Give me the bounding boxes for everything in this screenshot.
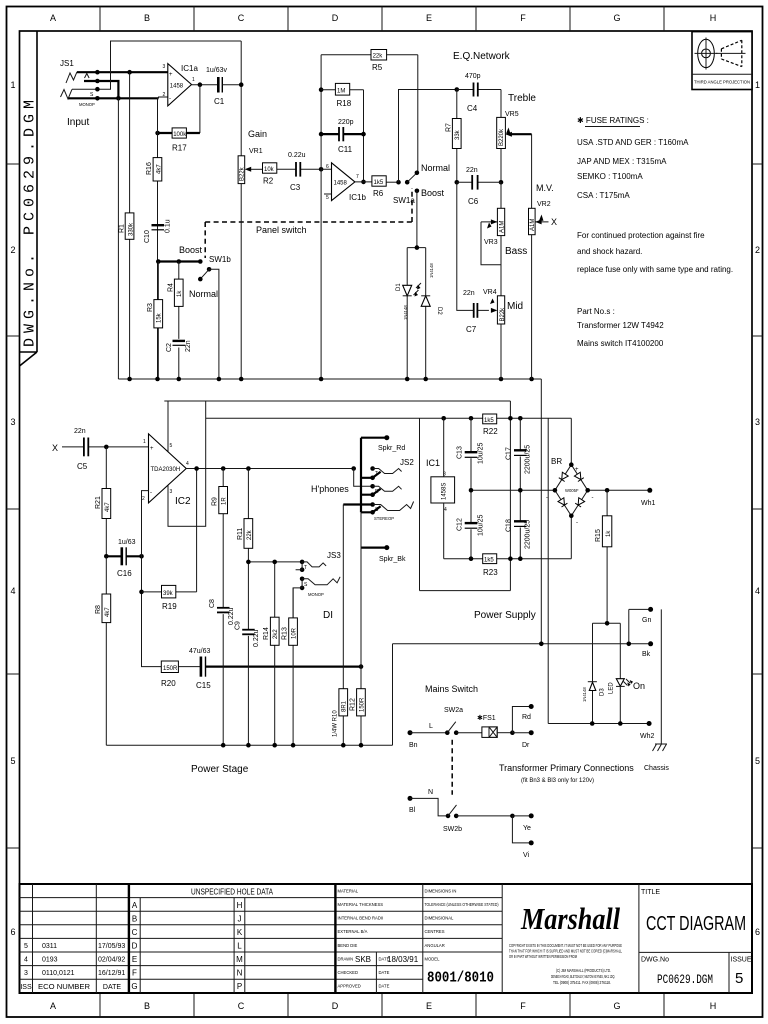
capacitor C6 22n	[455, 180, 460, 185]
pot VR3 bass	[500, 182, 502, 208]
wire jack ring	[84, 81, 118, 98]
svg-text:C12: C12	[457, 518, 464, 531]
svg-text:Rd: Rd	[522, 714, 531, 721]
svg-text:1N4148: 1N4148	[582, 687, 587, 702]
capacitor C4 470p	[455, 87, 460, 92]
wire SW1a node up to EQ	[399, 90, 457, 183]
svg-text:150R: 150R	[163, 666, 178, 672]
svg-text:1: 1	[143, 439, 146, 445]
capacitor C9 0.22u	[242, 629, 255, 631]
svg-text:L: L	[429, 723, 433, 730]
svg-text:22k: 22k	[247, 529, 253, 540]
grid ticks left	[7, 164, 20, 848]
IC2 package box	[168, 401, 206, 526]
grid letters top	[50, 13, 716, 23]
node R1 top	[127, 70, 132, 75]
wire IC1b pin5 to bus	[324, 193, 332, 195]
resistor R12 150R	[357, 689, 366, 716]
DWG number sidebar box	[20, 31, 39, 366]
svg-text:Spkr_Bk: Spkr_Bk	[379, 556, 406, 563]
svg-text:C5: C5	[77, 462, 88, 471]
svg-text:R21: R21	[95, 496, 102, 509]
IC2 output wire	[186, 468, 354, 470]
switch SW2b	[408, 796, 413, 801]
svg-text:4k7: 4k7	[105, 607, 111, 617]
diode D3 1N4148	[589, 682, 596, 690]
capacitor C8 0.22u	[217, 607, 230, 609]
pot VR5 treble	[497, 117, 506, 148]
capacitor C17 2200u/25	[519, 418, 521, 490]
svg-text:W005F: W005F	[565, 488, 579, 493]
svg-text:4: 4	[444, 507, 447, 513]
resistor R19 39k	[142, 469, 197, 592]
svg-text:Chassis: Chassis	[644, 765, 669, 772]
svg-text:1k: 1k	[606, 530, 612, 537]
resistor R2 10k	[263, 163, 277, 173]
svg-text:+: +	[150, 446, 154, 452]
svg-text:-: -	[576, 520, 578, 526]
resistor R18 1M	[319, 87, 324, 92]
svg-text:TDA2030H: TDA2030H	[151, 467, 181, 473]
svg-text:C9: C9	[235, 621, 242, 630]
grid numbers right	[755, 80, 760, 937]
svg-text:T: T	[304, 565, 307, 571]
title block vertical dividers	[33, 884, 423, 993]
resistor R8 4k7	[104, 554, 109, 559]
pot VR4 mid	[497, 296, 504, 324]
wire jack sleeve to IC1a pin2	[69, 97, 159, 99]
svg-text:C13: C13	[457, 446, 464, 459]
svg-text:Power Stage: Power Stage	[191, 764, 249, 775]
capacitor C10 0.1u	[152, 224, 165, 226]
svg-text:DI: DI	[323, 610, 333, 621]
svg-text:IC2: IC2	[175, 496, 191, 507]
svg-text:SW2b: SW2b	[443, 826, 462, 833]
svg-text:C17: C17	[506, 447, 513, 460]
svg-text:2200u/25: 2200u/25	[525, 445, 532, 474]
fuse ratings text block	[577, 116, 733, 348]
wire jack tip to IC1a pin3	[77, 71, 168, 73]
resistor R4 1k	[178, 262, 180, 380]
LED on indicator	[616, 679, 624, 687]
svg-text:LED: LED	[609, 682, 615, 694]
capacitor C2 22n	[173, 340, 186, 342]
svg-text:10u/25: 10u/25	[478, 442, 485, 464]
svg-text:R11: R11	[237, 528, 244, 540]
svg-text:1u/63: 1u/63	[118, 539, 136, 546]
wire IC2 pin2 feedback column	[142, 491, 162, 667]
svg-text:Spkr_Rd: Spkr_Rd	[378, 445, 405, 452]
svg-text:R14: R14	[263, 627, 270, 640]
svg-text:R13: R13	[282, 627, 289, 640]
dimensions column labels	[425, 889, 499, 962]
capacitor C5 22n	[83, 438, 85, 457]
mid rail 0V	[471, 489, 650, 491]
svg-text:JS2: JS2	[400, 458, 414, 467]
svg-text:Gn: Gn	[642, 617, 651, 624]
pot VR2 M.V.	[529, 208, 536, 234]
feedback wire R17	[199, 85, 201, 133]
IC1b + input node	[319, 167, 324, 172]
svg-text:4: 4	[186, 461, 189, 467]
svg-text:Mains Switch: Mains Switch	[425, 684, 478, 694]
svg-text:IC1: IC1	[426, 458, 440, 468]
resistor R11 22k	[247, 469, 249, 746]
copyright small print	[509, 943, 622, 985]
svg-text:0.22u: 0.22u	[253, 629, 260, 647]
boost node row	[158, 260, 200, 262]
resistor R17 100k	[172, 128, 186, 138]
svg-text:✱FS1: ✱FS1	[477, 714, 496, 722]
svg-text:+: +	[575, 467, 579, 473]
svg-text:150R: 150R	[359, 697, 365, 712]
svg-text:4k7: 4k7	[105, 502, 111, 512]
svg-text:R20: R20	[161, 679, 176, 688]
jack JS1 input	[60, 59, 95, 128]
capacitor C1 1u/63v	[217, 77, 220, 93]
LED block top bar	[593, 623, 621, 723]
panel switch dashed linkage	[205, 188, 412, 258]
resistor R16 4k7	[153, 158, 162, 181]
svg-text:R23: R23	[483, 568, 498, 577]
power stage ground bus	[106, 644, 392, 745]
grid ticks top	[100, 7, 664, 32]
svg-text:-: -	[592, 495, 594, 501]
svg-text:MONOP: MONOP	[308, 592, 324, 597]
switch SW1a	[396, 180, 401, 185]
grid ticks right	[752, 164, 763, 848]
svg-text:3: 3	[170, 489, 173, 495]
hole data letters col 1	[131, 901, 137, 991]
svg-text:2: 2	[142, 496, 145, 502]
Bk row	[393, 643, 651, 645]
resistor R7 33k	[456, 90, 458, 183]
svg-text:C18: C18	[506, 519, 513, 532]
IC1b output node	[361, 180, 366, 185]
anti-parallel arrows	[414, 283, 422, 295]
svg-text:C8: C8	[209, 599, 216, 608]
op-amp IC1b	[332, 163, 355, 201]
svg-text:BR: BR	[551, 457, 562, 466]
title block outline	[20, 884, 753, 993]
node jack tip	[95, 70, 100, 75]
svg-text:H'phones: H'phones	[311, 484, 349, 494]
capacitor C18 2200u/25	[519, 490, 521, 558]
capacitor C3 0.22u	[277, 168, 321, 170]
svg-text:R8: R8	[95, 605, 102, 614]
grid numbers left	[10, 80, 15, 937]
resistor R3 15k	[157, 262, 159, 380]
potentiometer VR1 gain	[240, 184, 242, 379]
svg-text:Bn: Bn	[409, 742, 418, 749]
svg-text:Bk: Bk	[642, 651, 651, 658]
Gn terminal	[629, 609, 651, 643]
wire C15 output thick	[206, 665, 362, 667]
svg-text:2k2: 2k2	[273, 629, 279, 639]
resistor R5 22k	[321, 55, 418, 173]
svg-text:8R1: 8R1	[342, 700, 348, 712]
svg-text:1R: 1R	[222, 497, 228, 505]
capacitor C7 22n	[457, 182, 489, 310]
resistor R14 2k2	[274, 562, 276, 745]
third angle projection box	[692, 32, 752, 90]
supply rail plus	[164, 401, 510, 591]
supply rail minus with Z-routing	[206, 418, 572, 590]
svg-text:Dr: Dr	[522, 742, 530, 749]
wire boost node to diode pair	[407, 191, 426, 379]
svg-text:X: X	[52, 443, 58, 453]
svg-text:2200u/25: 2200u/25	[525, 520, 532, 549]
op-amp IC1a	[159, 97, 168, 98]
mains linkage dashed	[451, 740, 453, 795]
svg-text:Wh2: Wh2	[640, 733, 655, 740]
capacitor C15 47u/63	[178, 666, 201, 668]
svg-text:Wh1: Wh1	[641, 500, 656, 507]
capacitor C12 10u/25	[470, 490, 472, 558]
resistor R9 1R	[222, 469, 224, 746]
resistor R6 1k5	[372, 176, 386, 186]
svg-text:R19: R19	[162, 602, 177, 611]
wire jack S contact to top loop	[72, 41, 241, 89]
resistor R15 1k	[606, 490, 608, 623]
capacitor C11 220p	[319, 132, 324, 137]
capacitor C16 1u/63	[106, 555, 141, 557]
spkr_rd stub	[361, 438, 387, 513]
VR5 wiper	[511, 133, 532, 135]
hole data letters col 2	[236, 901, 243, 991]
svg-text:22n: 22n	[74, 428, 86, 435]
diode D2	[421, 296, 430, 307]
svg-text:R9: R9	[212, 497, 219, 506]
title col divider row	[639, 951, 752, 953]
spkr_bk stub	[361, 546, 387, 548]
R23 row	[444, 558, 572, 560]
resistor R13 10R	[292, 588, 294, 745]
wire IC1a output to C1	[192, 84, 219, 86]
material column labels	[338, 889, 390, 989]
wire JS2 sleeve column + R10	[342, 505, 344, 746]
svg-text:R12: R12	[350, 698, 357, 711]
svg-text:47u/63: 47u/63	[189, 648, 211, 655]
svg-text:10u/25: 10u/25	[478, 514, 485, 536]
diode D1	[403, 285, 412, 296]
svg-text:39k: 39k	[163, 591, 174, 597]
svg-text:On: On	[633, 681, 645, 691]
resistor R21 4k7	[105, 447, 107, 556]
svg-text:Vi: Vi	[523, 852, 530, 859]
svg-text:10R: 10R	[292, 627, 298, 639]
svg-text:STEREOP: STEREOP	[374, 516, 394, 521]
svg-text:1/4W R10: 1/4W R10	[333, 710, 339, 737]
svg-text:D3: D3	[600, 688, 606, 696]
grid letters bottom	[50, 1001, 716, 1011]
svg-text:(fit Bn3 & Bl3 only for 120v): (fit Bn3 & Bl3 only for 120v)	[521, 778, 594, 784]
svg-text:1k5: 1k5	[484, 558, 494, 564]
resistor R20 150R	[161, 661, 178, 673]
svg-text:C16: C16	[117, 569, 132, 578]
wire ground return from sleeve to bus	[117, 98, 119, 379]
svg-text:Ye: Ye	[523, 825, 531, 832]
wire R1 column	[129, 72, 131, 379]
svg-text:R22: R22	[483, 427, 498, 436]
bridge diode marks	[558, 472, 585, 507]
chassis symbol	[653, 609, 668, 751]
svg-text:Power Supply: Power Supply	[474, 610, 536, 621]
svg-text:JS3: JS3	[327, 551, 341, 560]
svg-text:Transformer Primary Connection: Transformer Primary Connections	[499, 763, 634, 773]
svg-text:1k5: 1k5	[484, 418, 494, 424]
svg-text:N: N	[428, 789, 433, 796]
svg-text:Bl: Bl	[409, 807, 416, 814]
grid ticks bottom	[100, 993, 664, 1017]
svg-text:R15: R15	[595, 529, 602, 542]
svg-text:1458S: 1458S	[442, 483, 448, 500]
svg-text:-: -	[150, 490, 152, 496]
wire C1 to VR1 and top loop	[222, 41, 241, 156]
op-amp IC2 TDA2030H	[149, 434, 187, 503]
svg-text:5: 5	[170, 443, 173, 449]
resistor R1 330k	[125, 213, 134, 239]
svg-text:C15: C15	[196, 681, 211, 690]
svg-text:SW2a: SW2a	[444, 707, 463, 714]
resistor R10 8R1	[339, 689, 348, 716]
V2 wire from supply to Wh2	[548, 418, 649, 723]
title block row lines (left tables)	[20, 898, 503, 980]
resistor R23 1k5	[483, 554, 497, 564]
svg-text:S: S	[304, 582, 308, 588]
wire pin2 column down	[157, 98, 159, 379]
capacitor C13 10u/25	[470, 418, 472, 490]
preamp ground bus	[118, 379, 541, 644]
revision table rows	[20, 943, 125, 991]
resistor R22 1k5	[483, 414, 497, 424]
